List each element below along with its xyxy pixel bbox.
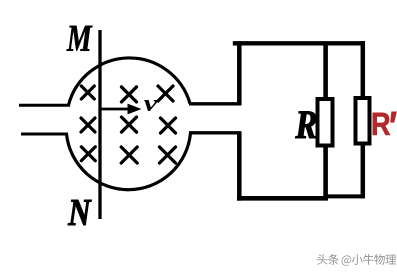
- watermark: [317, 254, 396, 266]
- wire left bottom lead: [21, 133, 68, 136]
- circuit loop: left edge lower segment: [237, 133, 242, 201]
- flux cross r2c1: [81, 118, 95, 132]
- resistor R': [356, 98, 370, 144]
- node N label: [68, 200, 92, 225]
- wire left top lead: [19, 104, 70, 107]
- wire inner branch: [323, 43, 328, 198]
- flux cross r2c2: [122, 117, 137, 132]
- field region bottom arc: [67, 133, 191, 190]
- resistor R: [318, 99, 333, 146]
- flux cross r1c2: [122, 87, 137, 102]
- velocity label v: [144, 100, 158, 111]
- flux cross r3c2: [121, 147, 137, 163]
- circuit loop: bottom edge right part: [326, 194, 365, 198]
- circuit loop: top edge: [233, 41, 365, 45]
- wire right bottom lead: [189, 131, 242, 134]
- flux cross r3c1: [81, 147, 95, 161]
- label R prime: [373, 113, 390, 135]
- flux cross r1c3: [158, 86, 173, 101]
- flux cross r1c1: [81, 86, 94, 99]
- boundary line MN: [98, 30, 101, 219]
- circuit loop: left edge upper segment: [237, 41, 242, 104]
- wire right top lead: [189, 102, 242, 105]
- flux cross r3c3: [160, 147, 176, 163]
- field region top arc: [69, 58, 191, 105]
- node M label: [67, 26, 93, 51]
- label R: [296, 112, 317, 139]
- flux cross r2c3: [161, 118, 176, 133]
- circuit loop: right edge: [361, 41, 366, 198]
- circuit loop: bottom edge left part: [237, 196, 328, 201]
- velocity arrow: [100, 108, 129, 111]
